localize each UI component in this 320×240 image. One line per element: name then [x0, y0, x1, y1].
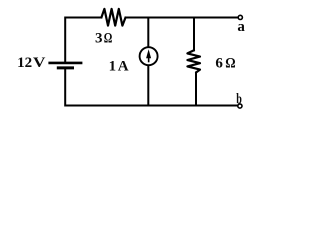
resistor 3 ohm (zigzag)	[101, 9, 125, 26]
svg-text:Ω: Ω	[104, 30, 113, 46]
resistor 6 ohm (zigzag)	[187, 50, 200, 72]
wire: top rail right segment to terminal a	[126, 17, 238, 19]
wire: bottom rail + left branch below battery	[65, 69, 238, 105]
current source 1 A: arrow (points up)	[146, 49, 151, 62]
battery 12 V: long positive plate	[50, 62, 81, 65]
node a: open terminal ring	[238, 15, 242, 19]
wire: 6 ohm branch, bottom segment	[195, 73, 197, 106]
node b: open terminal ring	[238, 104, 242, 108]
svg-text:6: 6	[215, 55, 223, 71]
svg-text:V: V	[33, 55, 46, 71]
svg-text:A: A	[118, 59, 129, 75]
svg-text:a: a	[237, 19, 245, 35]
wire: 6 ohm branch, top segment	[193, 18, 195, 51]
svg-text:b: b	[236, 91, 242, 107]
svg-text:1: 1	[109, 59, 117, 75]
wire: left branch vertical + top-left segment	[65, 18, 101, 62]
battery 12 V: short negative plate	[58, 66, 72, 69]
svg-text:3: 3	[95, 30, 103, 46]
current source 1 A: circle	[140, 47, 158, 65]
wire: current source branch, top segment	[147, 18, 149, 47]
wire: current source branch, bottom segment	[147, 66, 149, 106]
svg-text:Ω: Ω	[225, 55, 235, 71]
svg-text:12: 12	[17, 55, 32, 71]
